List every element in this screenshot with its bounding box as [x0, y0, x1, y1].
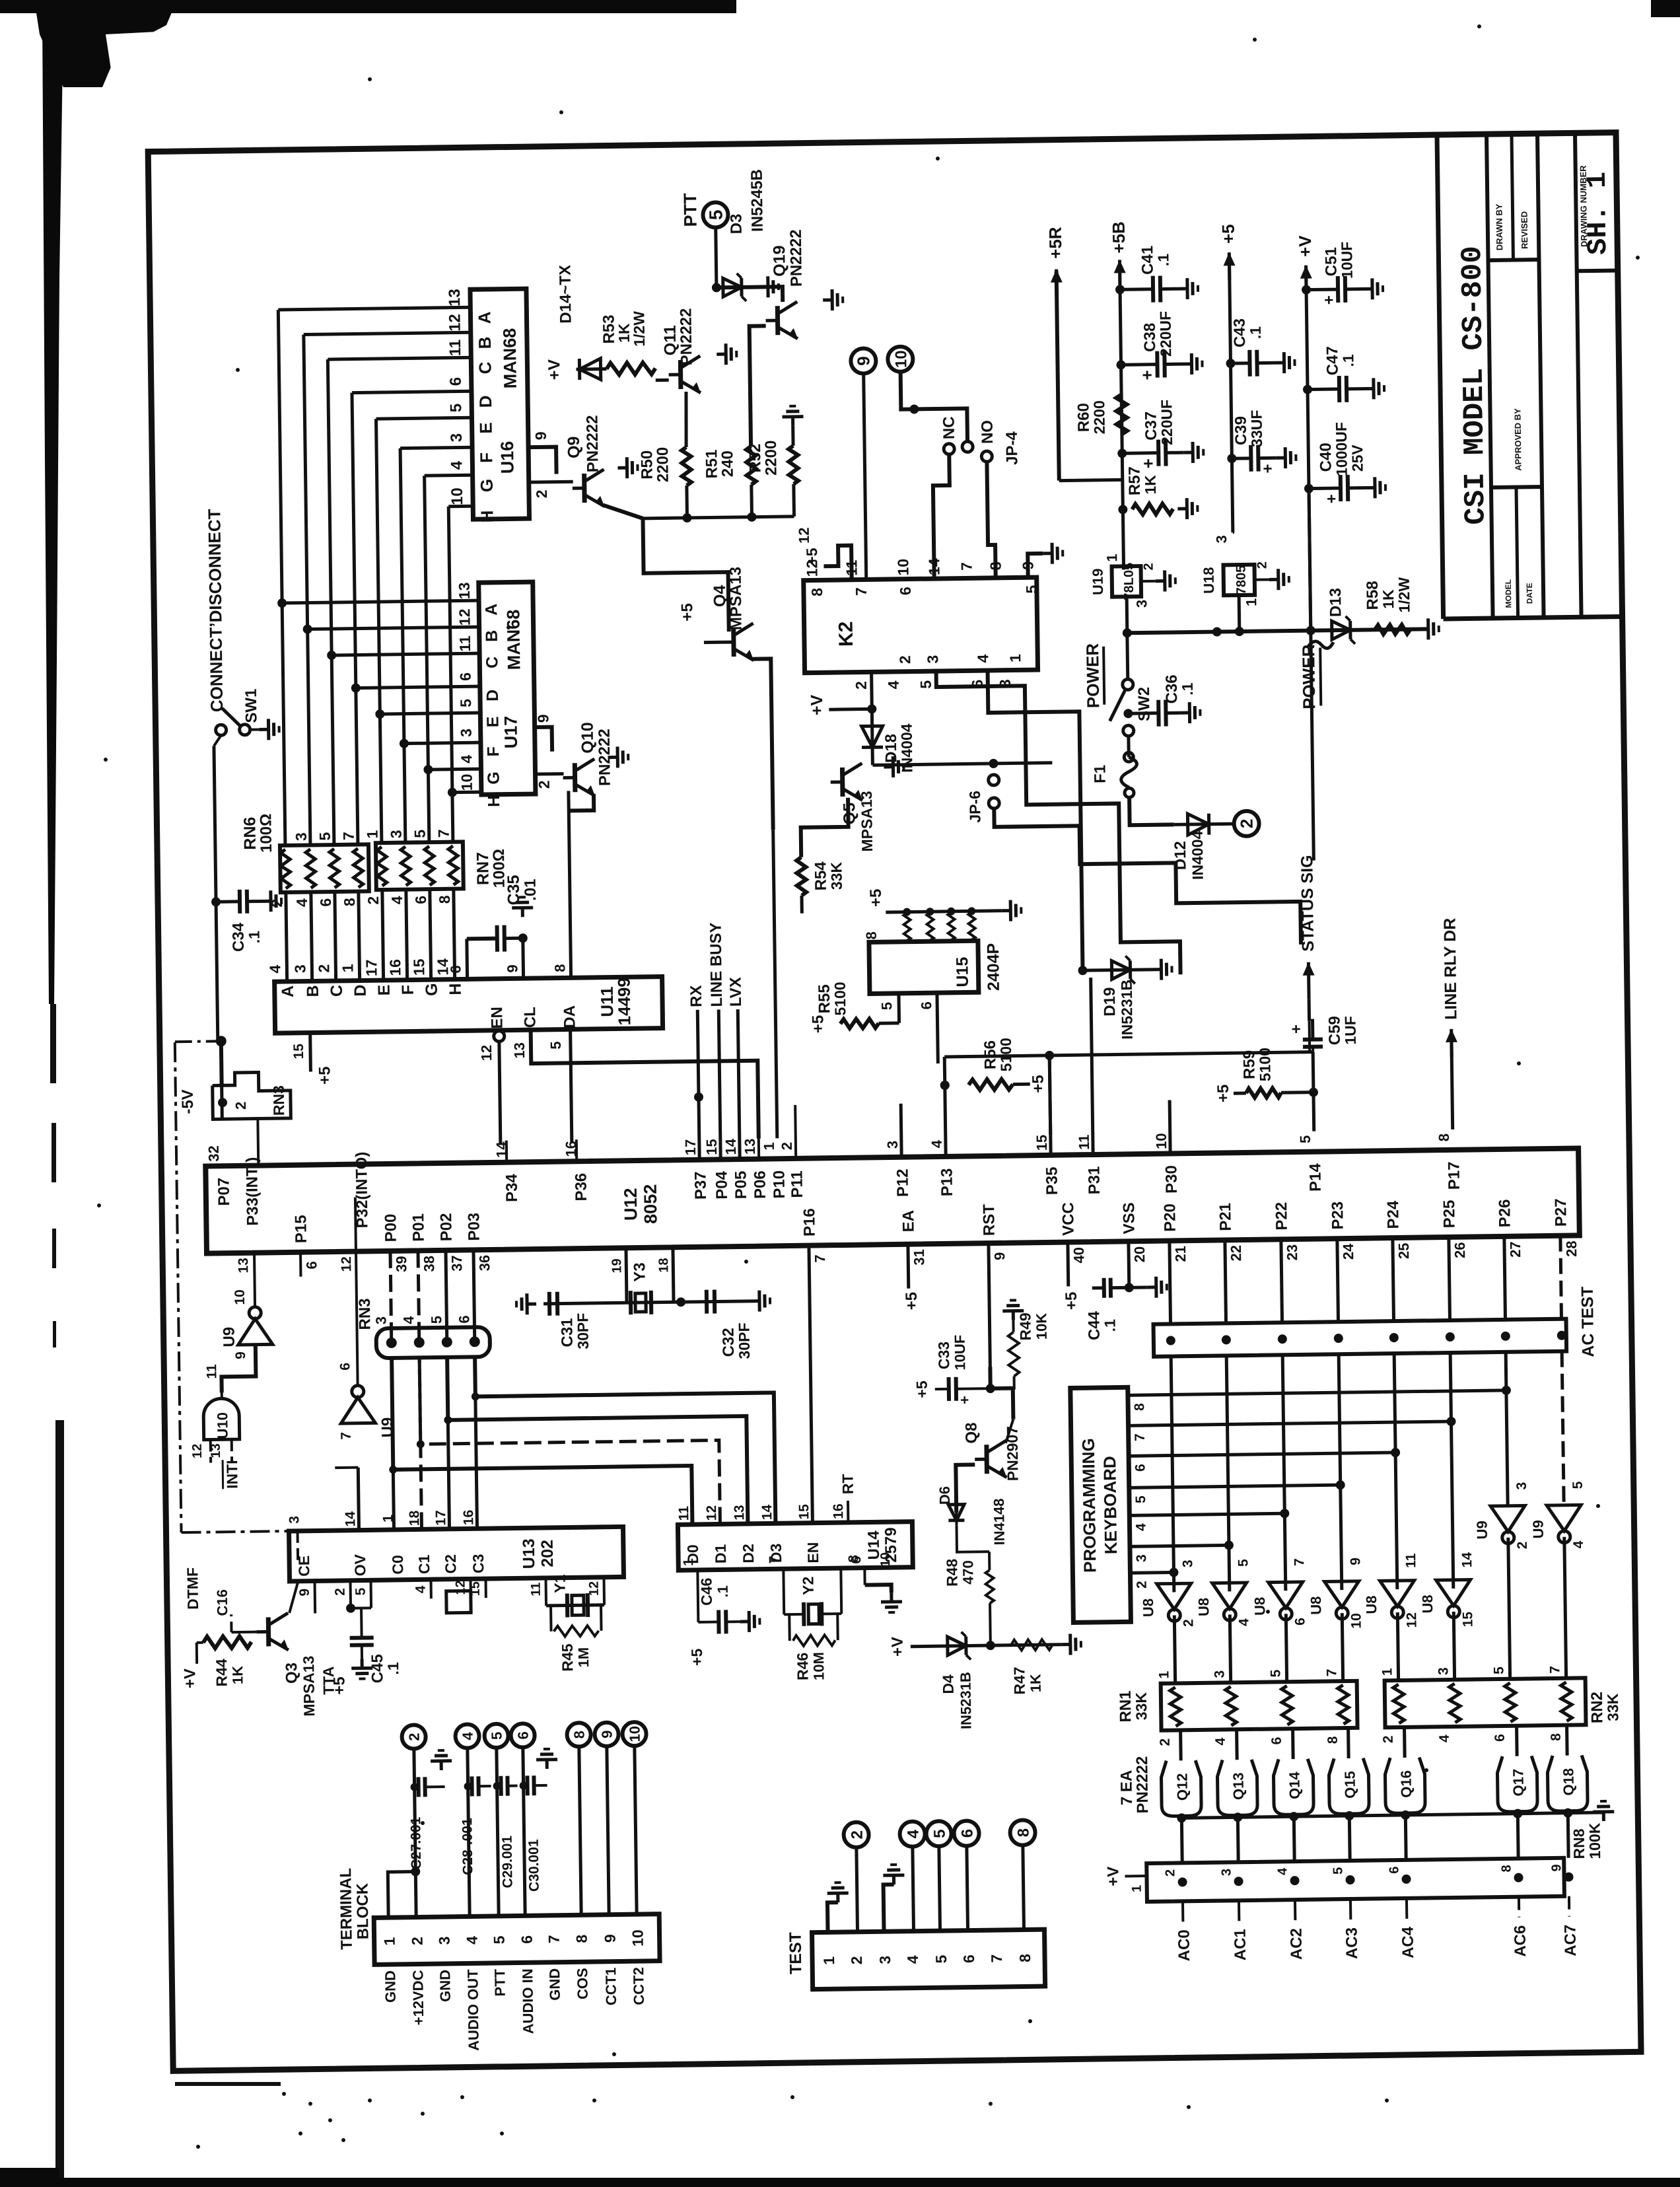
wire P26 column lower — [1506, 1352, 1508, 1506]
svg-text:3: 3 — [1133, 600, 1150, 608]
svg-text:P23: P23 — [1329, 1201, 1347, 1230]
wire AC1 — [1238, 1900, 1240, 1921]
transistor Q19 PN2222 — [765, 302, 798, 340]
svg-text:25V: 25V — [1348, 444, 1366, 472]
svg-text:12: 12 — [456, 608, 473, 626]
inverter U9 gate 2 — [1490, 1505, 1525, 1532]
wire P02 column — [446, 1250, 447, 1342]
svg-text:P33(INTI): P33(INTI) — [243, 1157, 262, 1225]
svg-text:R48: R48 — [943, 1558, 961, 1587]
svg-text:2: 2 — [1163, 1869, 1177, 1877]
wire F1 to D12 — [1129, 797, 1174, 825]
svg-text:6: 6 — [1492, 1734, 1508, 1742]
svg-text:P27: P27 — [1552, 1198, 1570, 1227]
U18 pin2 gnd — [1255, 578, 1269, 581]
wire P23 column lower — [1339, 1354, 1342, 1590]
connector circle 8 terminal — [567, 1723, 590, 1746]
svg-text:16: 16 — [386, 959, 403, 976]
svg-text:GND: GND — [437, 1970, 454, 2002]
svg-text:2: 2 — [1141, 563, 1156, 570]
capacitor C37 220UF — [1122, 451, 1157, 455]
wire Q18 base — [1565, 1725, 1569, 1756]
svg-text:DA: DA — [561, 1005, 578, 1028]
svg-text:C3: C3 — [470, 1554, 487, 1573]
STATUS SIG arrow — [1307, 962, 1311, 999]
svg-text:33UF: 33UF — [1247, 410, 1265, 447]
svg-text:10: 10 — [458, 773, 475, 791]
diode D6 — [955, 1499, 958, 1526]
svg-text:33K: 33K — [827, 861, 845, 890]
svg-text:7: 7 — [545, 1935, 563, 1943]
svg-text:U16: U16 — [497, 441, 518, 474]
resistor R47 1K — [1011, 1639, 1053, 1651]
junction circle10 node — [909, 404, 919, 413]
RN6 element 3 — [330, 849, 339, 888]
svg-text:+: + — [1259, 464, 1277, 473]
IC U12 8052 — [205, 1148, 1580, 1253]
svg-text:4: 4 — [266, 964, 283, 973]
resistor R58 1K 1/2W — [1375, 625, 1411, 635]
svg-text:C30.001: C30.001 — [526, 1839, 542, 1892]
wire U9 out 3 — [1564, 1537, 1566, 1678]
scan artifact left bar lower — [50, 1004, 56, 1083]
svg-text:8: 8 — [551, 964, 568, 972]
svg-text:5: 5 — [547, 1041, 564, 1050]
svg-text:30PF: 30PF — [574, 1312, 592, 1349]
svg-text:A: A — [474, 311, 494, 324]
svg-text:1UF: 1UF — [1341, 1016, 1359, 1045]
ground U15 rail — [1001, 900, 1021, 921]
svg-text:R49: R49 — [1016, 1312, 1034, 1341]
wire P35 stub — [1049, 1056, 1051, 1155]
U11 pin 15 +5 — [308, 1033, 312, 1072]
junction rail Q14 — [1289, 1812, 1298, 1821]
wire +V down to bus — [1309, 489, 1311, 629]
svg-text:9: 9 — [1549, 1864, 1564, 1871]
IC U15 2404P — [869, 941, 979, 993]
wire Q3 collector — [232, 1631, 257, 1633]
K2 pin9 stub — [1028, 554, 1043, 577]
junction +5B R57 — [1118, 505, 1127, 514]
svg-text:8: 8 — [1132, 1403, 1147, 1411]
svg-text:5: 5 — [1297, 1135, 1313, 1144]
wire Q4 base — [704, 641, 722, 644]
svg-text:12: 12 — [704, 1505, 719, 1521]
svg-text:F: F — [476, 452, 496, 463]
svg-text:8: 8 — [1436, 1133, 1452, 1142]
wire U8 out 5 — [1397, 1612, 1398, 1680]
svg-text:CSI MODEL CS-800: CSI MODEL CS-800 — [1456, 246, 1493, 525]
wire bus G to RN — [430, 890, 431, 980]
svg-text:AUDIO OUT: AUDIO OUT — [464, 1969, 482, 2051]
ground R49 — [1002, 1300, 1024, 1320]
U15 pullup resistor 4 — [968, 912, 975, 939]
wire P12 stub — [901, 1104, 901, 1157]
wire bus B to RN — [311, 892, 312, 981]
ground C36 — [1180, 702, 1200, 723]
wire P01 run — [419, 1353, 720, 1526]
svg-text:10: 10 — [892, 350, 910, 368]
svg-text:H: H — [485, 795, 503, 807]
svg-text:U12: U12 — [621, 1188, 641, 1221]
svg-text:11: 11 — [676, 1506, 691, 1521]
wire P36 stub — [575, 1139, 578, 1161]
net XTAL vertical — [543, 1301, 750, 1304]
wire Q15 base — [1347, 1728, 1350, 1758]
svg-text:P02: P02 — [437, 1213, 456, 1241]
wire terminal 2 — [414, 1749, 416, 1918]
ground C34 — [262, 890, 281, 912]
wire AC6 — [1518, 1897, 1520, 1918]
svg-text:2: 2 — [1515, 1542, 1530, 1550]
svg-text:2: 2 — [365, 896, 382, 905]
wire K2 pin2 +V — [870, 672, 874, 709]
inverter U8 gate 4 — [1325, 1581, 1360, 1608]
wire PTT to node — [716, 227, 717, 287]
scan artifact left bar — [42, 13, 63, 1004]
svg-text:+V: +V — [545, 359, 563, 380]
svg-text:13: 13 — [732, 1505, 747, 1521]
svg-text:B: B — [475, 336, 495, 349]
svg-text:1: 1 — [820, 1956, 837, 1965]
zener D3 IN5245B — [717, 285, 759, 289]
scan artifact top-right corner — [1651, 0, 1680, 17]
svg-text:D: D — [351, 984, 370, 996]
diode D14 — [577, 367, 607, 371]
wire P25 column upper — [1449, 1237, 1450, 1320]
wire R54 — [800, 798, 849, 857]
svg-text:B: B — [304, 985, 322, 997]
svg-text:EN: EN — [804, 1542, 822, 1563]
svg-text:15: 15 — [1460, 1611, 1475, 1627]
svg-text:P26: P26 — [1496, 1199, 1514, 1227]
AC TEST dot 6 — [1501, 1332, 1510, 1341]
keyboard pin 4 — [1129, 1513, 1284, 1515]
svg-text:DRAWING NUMBER: DRAWING NUMBER — [1578, 165, 1590, 247]
wire P30 stub — [1170, 1100, 1170, 1153]
svg-text:1: 1 — [381, 1937, 398, 1945]
capacitor C45 .1 — [360, 1608, 363, 1639]
wire P27 column lower — [1562, 1351, 1564, 1505]
connector circle 5 test — [926, 1821, 951, 1846]
svg-text:100K: 100K — [1586, 1822, 1603, 1859]
junction rail Q18 — [1563, 1809, 1572, 1818]
svg-text:6: 6 — [317, 898, 334, 907]
IC U13 202 — [289, 1526, 624, 1581]
jumper JP-6 circles — [989, 775, 999, 785]
wire test 5 — [939, 1846, 940, 1931]
wire P34 stub — [505, 1141, 508, 1163]
ground Q11 emitter — [717, 343, 736, 365]
wire U8 out 3 — [1286, 1614, 1286, 1682]
svg-text:8: 8 — [341, 898, 358, 906]
svg-text:7: 7 — [435, 829, 452, 838]
transistor Q5 MPSA13 — [830, 764, 862, 801]
C35 junction — [518, 933, 528, 943]
ground C45 — [351, 1659, 372, 1678]
svg-text:12: 12 — [339, 1256, 354, 1272]
junction RST C33 — [986, 1384, 995, 1393]
svg-text:8: 8 — [1549, 1733, 1564, 1741]
svg-text:Q19: Q19 — [770, 245, 789, 277]
wire P24 column lower — [1394, 1353, 1397, 1589]
svg-text:F: F — [399, 985, 417, 995]
connector circle 9 — [851, 348, 876, 373]
wire U9A out — [254, 1253, 255, 1307]
svg-text:C0: C0 — [389, 1555, 406, 1575]
svg-text:U17: U17 — [501, 716, 521, 749]
crystal Y3 — [629, 1291, 633, 1314]
svg-text:MAN68: MAN68 — [500, 328, 520, 389]
svg-text:K2: K2 — [835, 621, 857, 647]
wire AC0 — [1181, 1901, 1184, 1921]
svg-text:TTA: TTA — [320, 1667, 337, 1695]
svg-text:.1: .1 — [384, 1662, 402, 1675]
wire P01 column — [418, 1250, 419, 1342]
U15 pin 6 stub — [937, 993, 938, 1063]
wire Q15 collector — [1348, 1814, 1352, 1861]
U11 pin 6 stub — [465, 939, 469, 979]
capacitor C43 .1 — [1231, 361, 1249, 365]
svg-text:3: 3 — [458, 729, 475, 737]
wire terminal 8 — [579, 1746, 581, 1915]
svg-text:U9: U9 — [220, 1327, 238, 1347]
svg-text:5: 5 — [1023, 585, 1040, 593]
IC U19 78L05 — [1112, 566, 1142, 597]
svg-text:EN: EN — [488, 1007, 506, 1029]
relay K2 — [804, 577, 1038, 673]
svg-text:MAN68: MAN68 — [503, 609, 524, 670]
wire U11 DA to U12 P36 — [571, 1029, 572, 1143]
svg-text:D6: D6 — [936, 1486, 953, 1505]
svg-text:28: 28 — [1563, 1240, 1580, 1257]
wire U16 pin 6 to bus D — [352, 391, 472, 392]
U15 pullup resistor 1 — [903, 914, 911, 941]
svg-text:18: 18 — [656, 1258, 671, 1273]
title block outline — [1437, 135, 1444, 619]
title block SH box divider — [1577, 268, 1618, 273]
RN6 element 2 — [306, 849, 316, 888]
svg-text:+5: +5 — [903, 1292, 921, 1310]
svg-text:4: 4 — [458, 755, 475, 764]
U15 pullup junction 2 — [926, 908, 934, 915]
svg-text:Q8: Q8 — [962, 1422, 980, 1443]
ground C38 — [1182, 353, 1202, 375]
svg-text:D13: D13 — [1327, 588, 1345, 617]
wire JP6 staircase — [994, 805, 1301, 949]
svg-text:9: 9 — [534, 714, 551, 723]
svg-text:Q10: Q10 — [578, 722, 598, 754]
svg-text:C35: C35 — [505, 875, 524, 905]
RN2 element 1 — [1393, 1684, 1405, 1723]
RN7 element 1 — [377, 847, 387, 886]
ground rail — [1593, 1801, 1614, 1821]
svg-text:12: 12 — [446, 314, 464, 332]
svg-text:+5: +5 — [316, 1066, 333, 1085]
svg-text:6: 6 — [456, 1315, 472, 1324]
svg-text:16: 16 — [831, 1503, 846, 1519]
junction rail Q13 — [1233, 1812, 1242, 1822]
svg-text:U8: U8 — [1419, 1595, 1436, 1613]
svg-text:3: 3 — [876, 1956, 893, 1964]
resistor R52 2200 — [788, 446, 798, 484]
wire terminal 10 — [635, 1746, 637, 1914]
svg-text:3: 3 — [291, 964, 308, 973]
svg-text:LINE BUSY: LINE BUSY — [707, 922, 726, 1007]
svg-text:4: 4 — [460, 1731, 476, 1740]
svg-text:U19: U19 — [1090, 569, 1107, 596]
svg-text:9: 9 — [504, 964, 520, 973]
svg-text:P22: P22 — [1273, 1202, 1291, 1231]
svg-text:U18: U18 — [1201, 567, 1218, 594]
wire XTAL1 — [673, 1247, 674, 1302]
svg-text:R47: R47 — [1010, 1667, 1028, 1695]
svg-text:5: 5 — [705, 209, 726, 220]
wire U17 pin2 to Q10 — [536, 772, 564, 776]
svg-text:6: 6 — [959, 1829, 977, 1838]
svg-text:U9: U9 — [1529, 1520, 1546, 1538]
transistor Q13 — [1217, 1760, 1257, 1816]
svg-text:12: 12 — [478, 1045, 495, 1061]
ground C46 — [740, 1611, 759, 1632]
diode D18 IN4004 — [872, 709, 872, 765]
svg-text:RN3: RN3 — [356, 1298, 374, 1330]
wire P20 column lower — [1171, 1356, 1174, 1592]
svg-text:P05: P05 — [732, 1170, 750, 1199]
IC U18 7805 — [1223, 565, 1255, 596]
RN7 element 4 — [448, 846, 458, 885]
svg-text:2: 2 — [848, 1956, 865, 1964]
svg-text:1: 1 — [364, 830, 381, 838]
svg-text:5: 5 — [917, 680, 934, 688]
svg-text:31: 31 — [911, 1249, 927, 1266]
svg-text:2: 2 — [849, 1830, 866, 1840]
U15 pullup junction 1 — [903, 908, 911, 916]
wire XTAL2 — [626, 1248, 627, 1303]
ground D19 — [1152, 958, 1172, 980]
svg-text:6: 6 — [303, 1261, 320, 1270]
keyboard pin 7 — [1129, 1421, 1452, 1425]
diode D12 IN4004 — [1174, 824, 1234, 824]
svg-text:P12: P12 — [893, 1168, 912, 1197]
svg-text:5: 5 — [932, 1954, 950, 1963]
svg-text:3: 3 — [1436, 1667, 1451, 1675]
svg-text:D12: D12 — [1172, 841, 1190, 870]
svg-text:D19: D19 — [1101, 987, 1119, 1016]
svg-text:30PF: 30PF — [735, 1322, 753, 1359]
transistor Q11 PN2222 — [668, 356, 701, 394]
junction column — [417, 1440, 425, 1448]
svg-text:5: 5 — [489, 1732, 505, 1740]
svg-text:P11: P11 — [788, 1170, 806, 1198]
svg-text:TEST: TEST — [787, 1932, 806, 1974]
RN8 dot 5 — [1401, 1875, 1411, 1884]
svg-text:E: E — [476, 422, 496, 434]
RN3b jog piece — [212, 1072, 291, 1120]
svg-text:7: 7 — [1292, 1558, 1307, 1566]
connector circle 2 test — [843, 1822, 868, 1847]
VCC stub — [1066, 1242, 1070, 1287]
svg-text:37: 37 — [448, 1255, 465, 1272]
wire Q5 base bus — [872, 763, 1052, 766]
svg-text:7: 7 — [1324, 1668, 1339, 1676]
svg-text:5: 5 — [447, 404, 465, 413]
svg-text:15: 15 — [796, 1504, 812, 1520]
svg-text:+: + — [1137, 370, 1157, 380]
switch SW1 — [216, 725, 227, 735]
zener D19 IN5231B — [1083, 970, 1152, 970]
svg-text:TERMINAL: TERMINAL — [337, 1868, 356, 1950]
svg-text:38: 38 — [421, 1256, 437, 1272]
wire Q9 line down — [643, 517, 728, 633]
svg-text:5: 5 — [411, 830, 429, 838]
svg-text:U13: U13 — [520, 1538, 539, 1569]
wire Q4 collector run — [752, 659, 773, 830]
svg-text:MODEL: MODEL — [1504, 579, 1514, 608]
svg-text:1: 1 — [681, 1558, 696, 1566]
svg-text:2: 2 — [406, 1733, 423, 1741]
junction column — [444, 1416, 452, 1424]
ground C44 — [1147, 1277, 1167, 1298]
svg-text:36: 36 — [476, 1255, 493, 1272]
svg-text:.1: .1 — [1247, 326, 1264, 340]
junction +5B C38 — [1116, 360, 1125, 369]
svg-text:10: 10 — [1153, 1133, 1170, 1149]
switch SW2 — [1125, 633, 1129, 678]
wire Q14 base — [1291, 1729, 1295, 1759]
wire RX — [697, 1010, 699, 1160]
junction node D — [351, 683, 361, 692]
svg-text:C1: C1 — [415, 1554, 433, 1574]
svg-text:RST: RST — [980, 1204, 998, 1237]
wire P15 stub — [299, 1252, 302, 1277]
connector PTT circle 5 — [703, 202, 728, 227]
svg-text:6: 6 — [849, 1556, 864, 1564]
wire circle9 to K2 — [864, 373, 866, 579]
junction keyboard col 6 — [1391, 1448, 1400, 1457]
svg-text:Q18: Q18 — [1560, 1768, 1577, 1796]
title block divider col 3 — [1575, 133, 1582, 617]
junction +5B C37 — [1117, 448, 1127, 458]
wire U8 out 4 — [1342, 1613, 1343, 1681]
wire R55 to U15 pin5 — [879, 1021, 899, 1024]
svg-text:AC2: AC2 — [1288, 1928, 1306, 1960]
svg-text:C29.001: C29.001 — [500, 1836, 516, 1888]
resistor network RN6 100ohm — [280, 844, 369, 892]
svg-text:8: 8 — [1325, 1736, 1341, 1744]
svg-text:1: 1 — [1380, 1668, 1395, 1676]
svg-text:3: 3 — [287, 1516, 302, 1524]
wire U9B in — [355, 1198, 356, 1252]
wire RN3 to U12 edge — [256, 1119, 260, 1166]
wire U16 pin 10 to bus H — [448, 505, 473, 508]
svg-text:39: 39 — [393, 1256, 409, 1272]
svg-text:Q15: Q15 — [1341, 1771, 1358, 1799]
inverter U9 gate A — [238, 1318, 273, 1345]
wire bus E to RN — [382, 891, 384, 980]
junction Q5 JP6 — [989, 759, 998, 768]
svg-text:VSS: VSS — [1120, 1202, 1138, 1234]
svg-text:MPSA13: MPSA13 — [300, 1655, 318, 1716]
RN8 dot 4 — [1345, 1875, 1354, 1884]
svg-text:+5R: +5R — [1045, 227, 1066, 259]
wire RN3 to U12 — [219, 1041, 224, 1086]
svg-text:8: 8 — [1499, 1865, 1514, 1872]
wire U16 pin 3 to bus F — [400, 447, 472, 448]
svg-text:9: 9 — [599, 1730, 615, 1739]
junction P13 R56 — [940, 1081, 950, 1090]
title block divider drawn/revised — [1488, 260, 1539, 260]
